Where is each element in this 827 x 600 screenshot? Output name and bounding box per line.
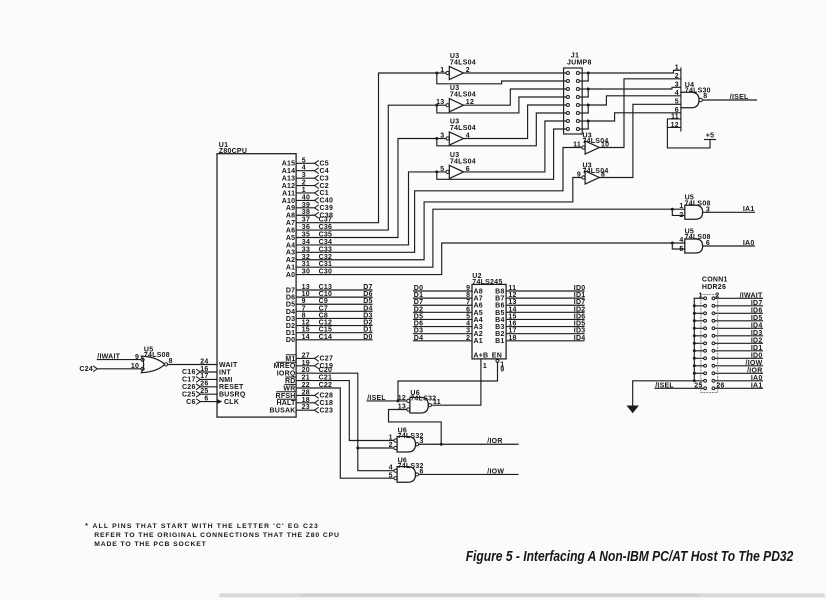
svg-text:HDR26: HDR26 <box>702 284 726 291</box>
svg-text:MADE TO THE PCB SOCKET: MADE TO THE PCB SOCKET <box>94 541 207 548</box>
svg-text:*: * <box>85 523 88 530</box>
svg-text:6: 6 <box>204 395 208 402</box>
svg-text:30: 30 <box>302 269 310 276</box>
svg-text:3: 3 <box>706 206 710 213</box>
svg-text:25: 25 <box>200 388 208 395</box>
svg-text:BUSRQ: BUSRQ <box>219 392 246 399</box>
svg-text:JUMP8: JUMP8 <box>567 59 592 66</box>
svg-text:RFSH: RFSH <box>276 393 296 400</box>
svg-text:26: 26 <box>716 382 724 389</box>
svg-text:HALT: HALT <box>276 400 296 407</box>
svg-text:9: 9 <box>500 366 504 373</box>
svg-text:3: 3 <box>302 172 306 179</box>
svg-text:D7: D7 <box>363 284 372 291</box>
svg-text:A3: A3 <box>286 250 295 257</box>
svg-text:B6: B6 <box>495 303 504 310</box>
svg-text:MREQ: MREQ <box>274 363 296 370</box>
svg-text:A14: A14 <box>282 168 296 175</box>
svg-text:C20: C20 <box>319 367 333 374</box>
svg-text:39: 39 <box>302 202 310 209</box>
svg-text:A10: A10 <box>282 198 296 205</box>
svg-text:9: 9 <box>577 172 581 179</box>
svg-text:8: 8 <box>601 172 605 179</box>
svg-text:10: 10 <box>131 363 139 370</box>
svg-text:C21: C21 <box>319 375 333 382</box>
svg-text:A9: A9 <box>286 205 295 212</box>
svg-text:3: 3 <box>440 133 444 140</box>
svg-text:18: 18 <box>302 397 310 404</box>
svg-text:ID3: ID3 <box>751 330 763 337</box>
svg-text:D7: D7 <box>414 299 423 306</box>
svg-text:D1: D1 <box>363 327 372 334</box>
svg-text:A7: A7 <box>474 296 483 303</box>
svg-text:C1: C1 <box>320 190 329 197</box>
svg-text:19: 19 <box>302 360 310 367</box>
svg-text:9: 9 <box>302 298 306 305</box>
svg-text:74LS08: 74LS08 <box>144 352 170 359</box>
svg-text:A5: A5 <box>474 310 483 317</box>
svg-text:ID1: ID1 <box>751 345 763 352</box>
svg-text:IORQ: IORQ <box>277 371 296 378</box>
svg-text:33: 33 <box>302 246 310 253</box>
svg-text:4: 4 <box>302 165 306 172</box>
svg-text:C10: C10 <box>319 291 333 298</box>
svg-text:C7: C7 <box>319 305 328 312</box>
svg-text:D3: D3 <box>414 328 423 335</box>
svg-text:D6: D6 <box>286 295 295 302</box>
svg-text:ID2: ID2 <box>751 337 763 344</box>
svg-text:17: 17 <box>200 373 208 380</box>
svg-text:6: 6 <box>420 468 424 475</box>
svg-text:C2: C2 <box>320 183 329 190</box>
svg-text:WR: WR <box>283 385 295 392</box>
svg-text:/ISEL: /ISEL <box>367 395 386 402</box>
svg-text:12: 12 <box>671 122 679 129</box>
svg-text:11: 11 <box>573 142 581 149</box>
svg-text:7: 7 <box>302 305 306 312</box>
svg-text:2: 2 <box>466 335 470 342</box>
svg-text:3: 3 <box>466 328 470 335</box>
svg-text:35: 35 <box>302 232 310 239</box>
svg-text:11: 11 <box>433 399 441 406</box>
svg-text:B3: B3 <box>495 324 504 331</box>
svg-text:A6: A6 <box>474 303 483 310</box>
svg-text:1: 1 <box>389 435 393 442</box>
svg-text:ID7: ID7 <box>751 300 763 307</box>
svg-text:2: 2 <box>715 292 719 299</box>
svg-text:A11: A11 <box>282 190 295 197</box>
svg-text:C36: C36 <box>319 224 333 231</box>
svg-text:16: 16 <box>200 366 208 373</box>
svg-text:C12: C12 <box>319 320 333 327</box>
svg-text:B7: B7 <box>495 296 504 303</box>
svg-text:IA0: IA0 <box>743 240 755 247</box>
svg-text:RD: RD <box>285 378 296 385</box>
svg-text:B8: B8 <box>495 288 504 295</box>
svg-text:4: 4 <box>466 133 470 140</box>
svg-text:1: 1 <box>440 67 444 74</box>
svg-text:INT: INT <box>219 369 232 376</box>
svg-text:D7: D7 <box>286 287 295 294</box>
svg-text:7: 7 <box>466 299 470 306</box>
svg-text:18: 18 <box>508 335 516 342</box>
svg-text:ID6: ID6 <box>574 313 586 320</box>
svg-text:21: 21 <box>302 375 310 382</box>
svg-text:M1: M1 <box>285 356 295 363</box>
svg-text:C39: C39 <box>320 205 334 212</box>
svg-text:12: 12 <box>398 395 406 402</box>
svg-text:C14: C14 <box>319 334 333 341</box>
svg-text:IA1: IA1 <box>751 382 763 389</box>
svg-text:ID6: ID6 <box>751 307 763 314</box>
svg-text:ALL PINS THAT START WITH THE L: ALL PINS THAT START WITH THE LETTER 'C' … <box>93 523 319 530</box>
svg-text:ID7: ID7 <box>574 299 586 306</box>
svg-text:14: 14 <box>302 334 310 341</box>
svg-text:C4: C4 <box>320 168 329 175</box>
svg-text:WAIT: WAIT <box>219 362 238 369</box>
svg-text:D3: D3 <box>286 316 295 323</box>
svg-text:C9: C9 <box>319 298 328 305</box>
svg-text:13: 13 <box>508 299 516 306</box>
svg-text:/IWAIT: /IWAIT <box>97 354 120 361</box>
svg-text:2: 2 <box>389 442 393 449</box>
svg-text:25: 25 <box>694 382 702 389</box>
svg-text:6: 6 <box>466 306 470 313</box>
svg-text:C31: C31 <box>319 261 333 268</box>
svg-text:9: 9 <box>135 354 139 361</box>
svg-text:32: 32 <box>302 254 310 261</box>
svg-text:74LS245: 74LS245 <box>472 279 502 286</box>
svg-text:8: 8 <box>169 358 173 365</box>
svg-text:C28: C28 <box>320 393 334 400</box>
svg-text:REFER TO THE ORIGINAL CONNECTI: REFER TO THE ORIGINAL CONNECTIONS THAT T… <box>94 532 340 539</box>
svg-text:/ISEL: /ISEL <box>730 94 749 101</box>
svg-text:D0: D0 <box>414 285 423 292</box>
svg-text:B5: B5 <box>495 310 504 317</box>
svg-text:1: 1 <box>483 363 487 370</box>
svg-text:6: 6 <box>706 240 710 247</box>
svg-text:C40: C40 <box>320 198 334 205</box>
svg-text:C34: C34 <box>319 239 333 246</box>
svg-text:/IOR: /IOR <box>487 438 502 445</box>
svg-text:37: 37 <box>302 217 310 224</box>
svg-text:C30: C30 <box>319 269 333 276</box>
svg-text:ID2: ID2 <box>574 306 586 313</box>
svg-text:A6: A6 <box>286 227 295 234</box>
svg-text:A4: A4 <box>286 242 295 249</box>
svg-text:3: 3 <box>420 438 424 445</box>
svg-text:5: 5 <box>302 157 306 164</box>
svg-text:1: 1 <box>675 65 679 72</box>
svg-text:A1: A1 <box>474 338 483 345</box>
svg-text:ID0: ID0 <box>574 285 586 292</box>
svg-text:17: 17 <box>508 328 516 335</box>
svg-text:12: 12 <box>466 99 474 106</box>
svg-text:2: 2 <box>675 73 679 80</box>
svg-text:A8: A8 <box>286 213 295 220</box>
svg-text:ID3: ID3 <box>574 328 586 335</box>
svg-text:15: 15 <box>508 313 516 320</box>
svg-text:D4: D4 <box>286 309 295 316</box>
svg-text:A2: A2 <box>286 257 295 264</box>
svg-text:/ISEL: /ISEL <box>655 382 674 389</box>
svg-text:14: 14 <box>508 306 516 313</box>
svg-text:/IOR: /IOR <box>747 367 762 374</box>
svg-text:C18: C18 <box>320 400 334 407</box>
svg-text:28: 28 <box>302 389 310 396</box>
svg-text:/IWAIT: /IWAIT <box>740 292 763 299</box>
svg-text:1: 1 <box>679 203 683 210</box>
svg-text:13: 13 <box>398 404 406 411</box>
svg-text:8: 8 <box>302 312 306 319</box>
svg-text:23: 23 <box>302 404 310 411</box>
svg-text:4: 4 <box>679 237 683 244</box>
svg-text:C26: C26 <box>182 384 196 391</box>
svg-text:27: 27 <box>302 352 310 359</box>
svg-text:A13: A13 <box>282 176 296 183</box>
svg-text:C37: C37 <box>319 217 333 224</box>
svg-text:A4: A4 <box>474 317 483 324</box>
svg-text:RESET: RESET <box>219 384 244 391</box>
svg-text:74LS04: 74LS04 <box>450 125 476 132</box>
svg-text:C16: C16 <box>182 369 196 376</box>
svg-text:C24: C24 <box>79 366 93 373</box>
svg-text:D2: D2 <box>286 323 295 330</box>
svg-text:13: 13 <box>436 99 444 106</box>
svg-text:A5: A5 <box>286 235 295 242</box>
svg-text:A2: A2 <box>474 331 483 338</box>
svg-text:9: 9 <box>466 285 470 292</box>
svg-text:B4: B4 <box>495 317 504 324</box>
svg-text:D5: D5 <box>363 298 372 305</box>
svg-text:BUSAK: BUSAK <box>269 408 295 415</box>
svg-text:ID4: ID4 <box>574 335 586 342</box>
svg-text:34: 34 <box>302 239 310 246</box>
svg-text:6: 6 <box>466 166 470 173</box>
svg-text:ID4: ID4 <box>751 322 763 329</box>
svg-text:IA1: IA1 <box>743 206 755 213</box>
svg-text:ID5: ID5 <box>574 321 586 328</box>
svg-text:A8: A8 <box>474 288 483 295</box>
svg-text:B2: B2 <box>495 331 504 338</box>
svg-text:A15: A15 <box>282 161 296 168</box>
svg-text:C17: C17 <box>182 377 196 384</box>
svg-text:26: 26 <box>200 381 208 388</box>
svg-text:C25: C25 <box>182 391 196 398</box>
svg-text:A+B: A+B <box>473 352 488 359</box>
svg-text:D3: D3 <box>363 312 372 319</box>
svg-text:CONN1: CONN1 <box>702 277 728 284</box>
svg-text:12: 12 <box>508 292 516 299</box>
svg-text:C27: C27 <box>320 356 334 363</box>
svg-text:D5: D5 <box>414 313 423 320</box>
svg-text:/IOW: /IOW <box>746 360 763 367</box>
svg-text:D0: D0 <box>363 334 372 341</box>
svg-text:D5: D5 <box>286 302 295 309</box>
svg-text:1: 1 <box>698 292 702 299</box>
svg-text:B1: B1 <box>495 338 504 345</box>
svg-text:A7: A7 <box>286 220 295 227</box>
svg-text:D4: D4 <box>414 335 423 342</box>
svg-text:3: 3 <box>675 82 679 89</box>
svg-text:4: 4 <box>389 465 393 472</box>
svg-text:C5: C5 <box>320 161 329 168</box>
svg-text:ID5: ID5 <box>751 315 763 322</box>
svg-text:C15: C15 <box>319 327 333 334</box>
svg-text:40: 40 <box>302 194 310 201</box>
svg-text:IA0: IA0 <box>751 375 763 382</box>
svg-text:C32: C32 <box>319 254 333 261</box>
svg-text:/IOW: /IOW <box>487 468 504 475</box>
svg-text:8: 8 <box>703 93 707 100</box>
svg-text:12: 12 <box>302 320 310 327</box>
svg-text:4: 4 <box>466 321 470 328</box>
svg-text:36: 36 <box>302 224 310 231</box>
svg-text:C8: C8 <box>319 312 328 319</box>
svg-text:CLK: CLK <box>224 399 239 406</box>
svg-text:10: 10 <box>601 142 609 149</box>
svg-text:5: 5 <box>466 313 470 320</box>
svg-text:15: 15 <box>302 327 310 334</box>
svg-text:11: 11 <box>508 285 516 292</box>
svg-text:D2: D2 <box>363 320 372 327</box>
svg-text:D1: D1 <box>286 330 295 337</box>
svg-text:ID1: ID1 <box>574 292 586 299</box>
svg-text:2: 2 <box>302 180 306 187</box>
svg-text:5: 5 <box>389 472 393 479</box>
svg-text:16: 16 <box>508 321 516 328</box>
svg-text:D6: D6 <box>414 321 423 328</box>
svg-text:1: 1 <box>302 187 306 194</box>
svg-text:5: 5 <box>440 166 444 173</box>
svg-text:C22: C22 <box>319 382 333 389</box>
svg-text:5: 5 <box>675 99 679 106</box>
svg-text:38: 38 <box>302 209 310 216</box>
svg-text:NMI: NMI <box>219 377 233 384</box>
svg-text:20: 20 <box>302 367 310 374</box>
svg-text:A12: A12 <box>282 183 296 190</box>
svg-text:13: 13 <box>302 284 310 291</box>
svg-text:5: 5 <box>679 246 683 253</box>
svg-text:2: 2 <box>679 212 683 219</box>
svg-text:D0: D0 <box>286 337 295 344</box>
svg-text:A3: A3 <box>474 324 483 331</box>
svg-text:24: 24 <box>200 358 208 365</box>
svg-text:C23: C23 <box>320 407 334 414</box>
svg-text:C6: C6 <box>186 399 195 406</box>
svg-text:D2: D2 <box>414 306 423 313</box>
svg-text:74LS04: 74LS04 <box>450 59 476 66</box>
svg-text:+5: +5 <box>706 133 714 140</box>
svg-text:C13: C13 <box>319 284 333 291</box>
svg-text:Figure 5 - Interfacing A Non-I: Figure 5 - Interfacing A Non-IBM PC/AT H… <box>466 549 794 565</box>
svg-text:C35: C35 <box>319 232 333 239</box>
svg-text:A0: A0 <box>286 272 295 279</box>
svg-text:Z80CPU: Z80CPU <box>219 148 247 155</box>
svg-text:D1: D1 <box>414 292 423 299</box>
svg-text:22: 22 <box>302 382 310 389</box>
svg-text:ID0: ID0 <box>751 352 763 359</box>
svg-text:C3: C3 <box>320 175 329 182</box>
svg-text:EN: EN <box>492 352 502 359</box>
svg-text:2: 2 <box>466 67 470 74</box>
svg-text:4: 4 <box>675 90 679 97</box>
svg-text:A1: A1 <box>286 265 295 272</box>
svg-text:D6: D6 <box>363 291 372 298</box>
svg-text:D4: D4 <box>363 305 372 312</box>
svg-text:74LS04: 74LS04 <box>450 92 476 99</box>
svg-text:8: 8 <box>466 292 470 299</box>
svg-text:10: 10 <box>302 291 310 298</box>
svg-text:C33: C33 <box>319 246 333 253</box>
svg-text:74LS04: 74LS04 <box>450 158 476 165</box>
svg-text:11: 11 <box>671 113 679 120</box>
svg-text:31: 31 <box>302 261 310 268</box>
